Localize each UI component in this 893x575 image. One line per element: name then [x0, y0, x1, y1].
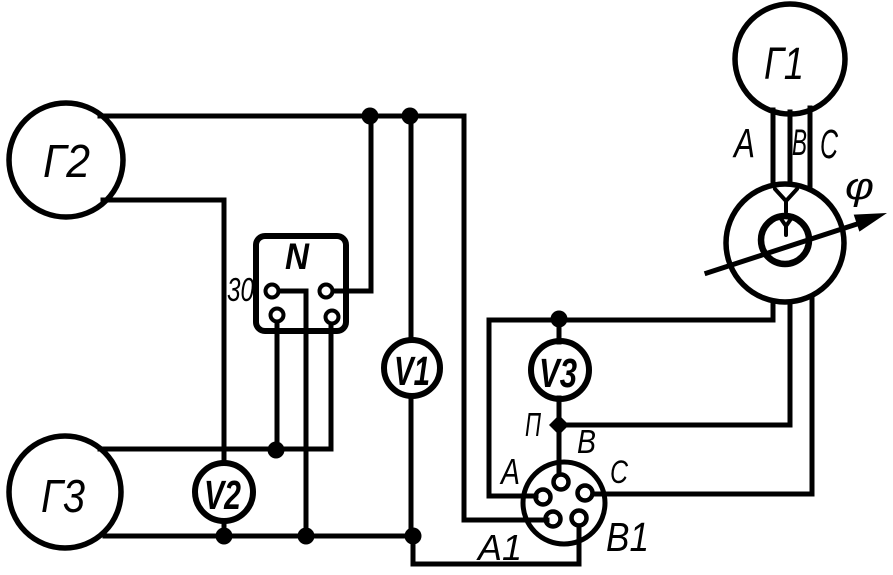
svg-text:Г1: Г1 [764, 38, 804, 89]
svg-text:N: N [285, 236, 310, 277]
svg-text:Г2: Г2 [43, 135, 90, 187]
svg-text:В1: В1 [606, 514, 649, 560]
svg-text:φ: φ [845, 166, 874, 208]
svg-text:C: C [610, 454, 629, 490]
svg-text:B: B [792, 122, 807, 163]
svg-text:V1: V1 [394, 348, 430, 394]
svg-text:B: B [577, 423, 596, 460]
svg-text:30: 30 [227, 271, 254, 308]
svg-text:V3: V3 [539, 350, 577, 396]
svg-text:П: П [525, 406, 541, 443]
svg-text:Г3: Г3 [41, 470, 85, 522]
svg-text:C: C [820, 121, 838, 167]
svg-text:A: A [499, 451, 520, 492]
svg-text:V2: V2 [204, 472, 241, 518]
svg-text:A: A [732, 120, 755, 166]
svg-text:А1: А1 [476, 527, 522, 568]
